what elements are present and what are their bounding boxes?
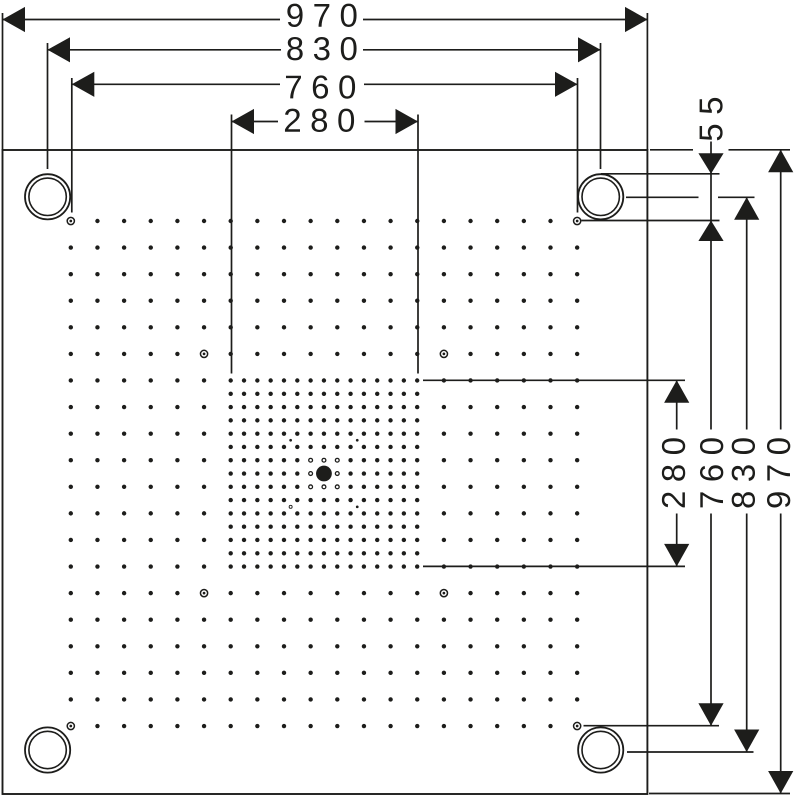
dimension 760 vertical — [698, 221, 723, 726]
shower plate outline — [3, 150, 648, 794]
dimension 760 horizontal — [72, 72, 578, 213]
corner screw bottom-right — [574, 722, 581, 729]
corner screw top-left — [67, 217, 74, 224]
connector line dense zone top — [423, 379, 685, 381]
corner screw top-right — [574, 217, 581, 224]
mounting hole top-right — [578, 174, 623, 219]
ring nozzles around centre — [309, 458, 339, 488]
dimension 280 horizontal — [232, 109, 419, 374]
dimension 830 vertical — [732, 197, 760, 752]
tick line hole top tangent — [601, 173, 720, 175]
dimension 830 horizontal — [48, 37, 601, 169]
tick line plate top edge extension — [650, 149, 790, 151]
connector line dense zone bottom — [423, 565, 685, 567]
dimension 970 horizontal — [3, 4, 648, 150]
mid screw upper-right — [440, 350, 447, 357]
sparse nozzle dot grid — [69, 219, 580, 728]
tick line hole centre bottom — [627, 751, 754, 753]
mounting hole bottom-right — [578, 727, 623, 772]
dimension 55 vertical — [698, 98, 723, 241]
mid screw upper-left — [200, 350, 207, 357]
tick line bottom screw row — [584, 725, 720, 727]
dense central nozzle grid — [229, 378, 420, 568]
tick line hole centre top — [626, 196, 755, 198]
tick line plate bottom edge extension — [649, 793, 790, 795]
mid screw lower-left — [200, 590, 207, 597]
dimension 970 vertical — [767, 150, 793, 794]
centre nozzle large dot — [316, 466, 332, 482]
corner screw bottom-left — [67, 722, 74, 729]
tick line top screw row — [582, 220, 720, 222]
mid screw lower-right — [440, 590, 447, 597]
tiny diagonal marks around centre — [289, 439, 358, 508]
mounting hole bottom-left — [25, 727, 70, 772]
mounting hole top-left — [25, 174, 70, 219]
dimension 280 vertical — [662, 380, 689, 566]
